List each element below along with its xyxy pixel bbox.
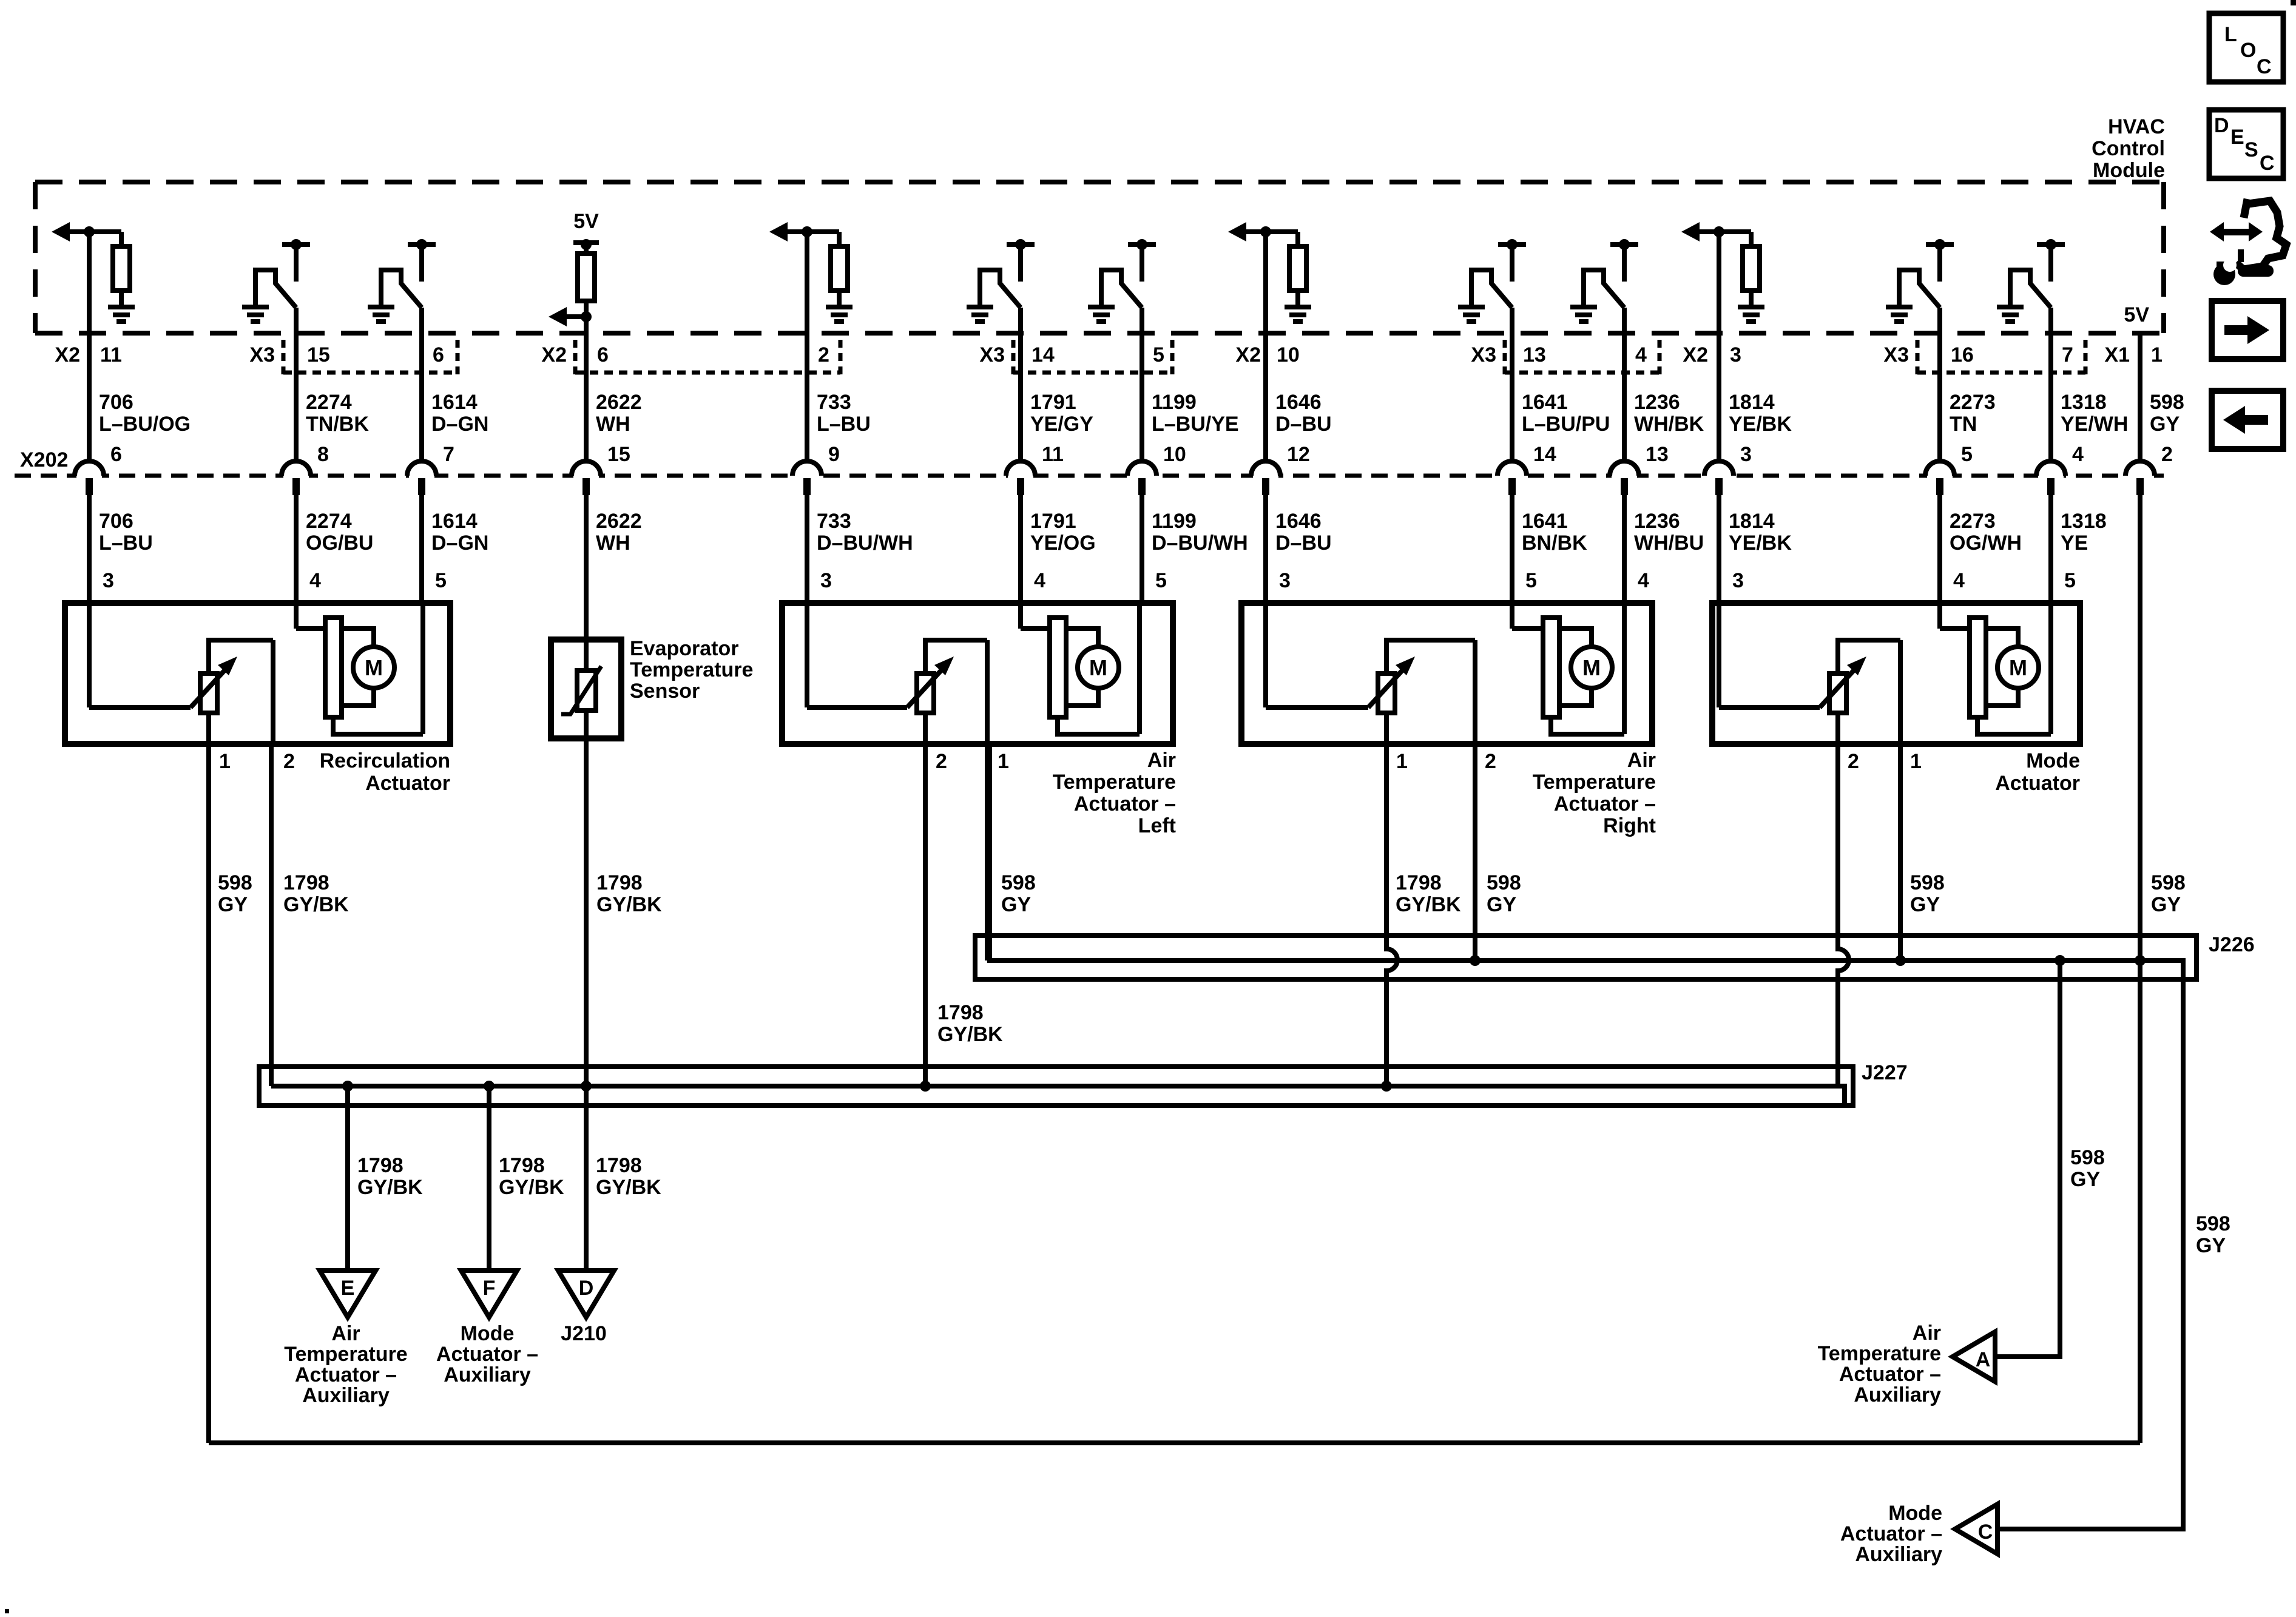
svg-text:1: 1 <box>1910 750 1922 773</box>
wire pin 4 to motor return <box>1622 603 1627 734</box>
wire 1798 GY/BK from Evaporator Temperature Sensor <box>584 738 589 1271</box>
motor M (Mode Actuator) <box>1970 618 2051 734</box>
potentiometer (Recirculation Actuator) <box>89 640 273 713</box>
svg-text:L: L <box>2224 23 2237 46</box>
separator <box>2084 340 2088 375</box>
Recirculation Actuator box <box>65 603 450 744</box>
ground <box>368 305 394 324</box>
junction dot <box>1895 955 1906 966</box>
wire to actuator <box>2048 494 2053 606</box>
svg-text:X2: X2 <box>1235 343 1261 366</box>
junction dot <box>920 1081 931 1092</box>
svg-text:5: 5 <box>1155 569 1167 592</box>
svg-text:1: 1 <box>998 750 1009 773</box>
wire 598 GY from Mode Actuator pin 1 <box>1898 744 1903 960</box>
svg-text:13: 13 <box>1646 443 1669 466</box>
wire 598 GY from Recirculation Actuator pin 1 <box>206 744 211 1443</box>
svg-text:D: D <box>579 1277 594 1300</box>
svg-text:11: 11 <box>100 343 122 366</box>
svg-text:598GY: 598GY <box>218 871 252 916</box>
wrench and arrow icon <box>2210 199 2286 285</box>
junction dot <box>2055 955 2065 966</box>
svg-text:13: 13 <box>1523 343 1546 366</box>
resistor R (pull-up) and arrow, module pin X2-11 <box>52 222 130 305</box>
wire to actuator <box>1263 494 1268 606</box>
connector C (Mode Actuator Auxiliary) <box>1955 1504 1997 1554</box>
separator <box>839 340 843 375</box>
ground <box>1458 305 1485 324</box>
svg-text:4: 4 <box>2072 443 2084 466</box>
svg-text:598GY: 598GY <box>2151 871 2186 916</box>
svg-text:4: 4 <box>1638 569 1649 592</box>
pot lead to pin 2 <box>271 640 275 744</box>
ground <box>1088 305 1115 324</box>
connector X202 terminal 3 <box>1704 461 1734 495</box>
pot lead to pin 2 <box>923 713 928 744</box>
HVAC Control Module dashed box <box>35 182 2164 333</box>
wire inside actuator <box>805 603 809 707</box>
svg-text:6: 6 <box>110 443 122 466</box>
5V supply with resistor, module pin X2-6 <box>549 210 599 326</box>
ground <box>1886 305 1913 324</box>
connector E (Air Temperature Actuator Auxiliary) <box>320 1271 376 1317</box>
svg-text:J227: J227 <box>1862 1061 1908 1084</box>
svg-text:2: 2 <box>2161 443 2173 466</box>
X202 in-line connector dashed line <box>15 474 2164 478</box>
svg-text:5: 5 <box>1525 569 1537 592</box>
svg-text:5: 5 <box>1153 343 1164 366</box>
Air Temperature Actuator Left box <box>782 603 1173 744</box>
Evaporator Temperature Sensor box <box>551 640 621 738</box>
svg-text:3: 3 <box>1732 569 1744 592</box>
svg-text:M: M <box>1089 655 1107 680</box>
left arrow icon <box>2212 391 2283 449</box>
wire 2622 WH to evaporator temperature sensor <box>584 494 589 640</box>
ground <box>1997 305 2024 324</box>
wire to motor <box>294 603 299 629</box>
connector X202 terminal 13 <box>1610 461 1639 495</box>
svg-text:X3: X3 <box>1883 343 1909 366</box>
ground <box>108 305 135 324</box>
ground <box>967 305 993 324</box>
svg-text:10: 10 <box>1277 343 1300 366</box>
wire <box>87 232 92 462</box>
potentiometer (Mode Actuator) <box>1719 640 1900 713</box>
connector sub-box bottom <box>283 371 458 375</box>
svg-text:F: F <box>483 1277 496 1300</box>
splice harness J226 outline <box>975 936 2196 979</box>
svg-text:6: 6 <box>597 343 609 366</box>
svg-text:5: 5 <box>435 569 447 592</box>
svg-text:3: 3 <box>103 569 114 592</box>
svg-text:J226: J226 <box>2209 933 2255 956</box>
wire to actuator <box>87 494 92 606</box>
svg-text:598GY: 598GY <box>1487 871 1521 916</box>
svg-text:E: E <box>2230 126 2244 149</box>
wire pin 5 to motor return <box>420 603 425 734</box>
wire 1798 GY/BK from Mode Actuator pin 2 (hops J226) <box>1838 744 1849 1086</box>
wire inside actuator <box>1263 603 1268 707</box>
svg-text:2: 2 <box>1485 750 1496 773</box>
connector F (Mode Actuator Auxiliary) <box>461 1271 517 1317</box>
wire inside actuator <box>1717 603 1721 707</box>
svg-text:5: 5 <box>2064 569 2076 592</box>
splice J226 wire 598 GY <box>990 744 2183 1529</box>
svg-text:598GY: 598GY <box>1001 871 1036 916</box>
wire to actuator <box>1622 494 1627 606</box>
connector X202 terminal 7 <box>407 461 436 495</box>
Air Temperature Actuator Right box <box>1241 603 1652 744</box>
wire 598 GY from Air Temperature Actuator Left pin 1 <box>985 744 990 960</box>
svg-text:X3: X3 <box>1471 343 1496 366</box>
wire <box>2048 308 2053 462</box>
svg-text:7: 7 <box>443 443 454 466</box>
separator <box>456 340 460 375</box>
connector D (J210) <box>558 1271 614 1317</box>
wire inside recirculation actuator <box>87 603 92 707</box>
svg-text:14: 14 <box>1533 443 1556 466</box>
svg-text:4: 4 <box>1635 343 1647 366</box>
svg-text:X202: X202 <box>20 448 68 471</box>
motor M (Air Temperature Actuator Left) <box>1050 618 1140 734</box>
svg-text:1: 1 <box>219 750 231 773</box>
svg-text:D: D <box>2214 114 2229 137</box>
svg-text:3: 3 <box>1730 343 1741 366</box>
svg-text:8: 8 <box>317 443 329 466</box>
wire 598 GY from X202 terminal 2 down through J226 <box>2138 495 2142 1443</box>
svg-text:5V: 5V <box>573 210 599 233</box>
wire to actuator <box>1140 494 1144 606</box>
wire <box>1510 308 1514 462</box>
svg-text:10: 10 <box>1163 443 1186 466</box>
driver switch to ground, module pin X3-14 <box>980 239 1035 308</box>
svg-text:X2: X2 <box>1683 343 1708 366</box>
connector sub-box bottom <box>575 371 840 375</box>
wire to motor bar <box>1940 626 1970 631</box>
svg-text:M: M <box>1582 655 1601 680</box>
connector X202 terminal 9 <box>792 461 822 495</box>
connector X202 terminal 15 <box>572 461 601 495</box>
LOC icon <box>2209 13 2283 82</box>
separator <box>1658 340 1662 375</box>
svg-text:C: C <box>2260 152 2275 175</box>
svg-text:E: E <box>341 1277 355 1300</box>
svg-text:6: 6 <box>433 343 444 366</box>
pot lead to pin 1 <box>206 713 211 744</box>
ground <box>1285 305 1311 324</box>
svg-text:598GY: 598GY <box>2070 1146 2105 1191</box>
Mode Actuator box <box>1712 603 2080 744</box>
junction dot <box>1470 955 1481 966</box>
wire <box>1717 232 1721 462</box>
svg-text:2: 2 <box>936 750 947 773</box>
wire 1798 GY/BK from Air Temperature Actuator Left pin 2 <box>923 744 928 1086</box>
wire 598 GY from pin X1-1 <box>2138 333 2142 462</box>
connector X202 terminal 8 <box>282 461 311 495</box>
svg-text:J210: J210 <box>561 1322 607 1345</box>
svg-text:X3: X3 <box>249 343 275 366</box>
connector X202 terminal 12 <box>1251 461 1280 495</box>
svg-text:C: C <box>2257 55 2272 78</box>
wire to actuator <box>294 494 299 606</box>
wire <box>1263 232 1268 462</box>
pot lead to pin 2 <box>1473 640 1477 744</box>
connector sub-box bottom <box>1917 371 2085 375</box>
wire <box>294 308 299 462</box>
wire to motor bar <box>296 626 325 631</box>
wire <box>584 317 589 462</box>
driver switch to ground, module pin X3-7 <box>2010 239 2065 308</box>
svg-text:X2: X2 <box>541 343 567 366</box>
wire to actuator <box>1018 494 1023 606</box>
svg-text:X3: X3 <box>979 343 1005 366</box>
ground <box>1738 305 1764 324</box>
svg-text:1: 1 <box>2151 343 2163 366</box>
svg-text:A: A <box>1976 1348 1991 1371</box>
svg-text:15: 15 <box>307 343 330 366</box>
wire to motor bar <box>1021 626 1050 631</box>
DESC icon <box>2209 110 2283 178</box>
svg-text:9: 9 <box>828 443 840 466</box>
svg-text:598GY: 598GY <box>1910 871 1945 916</box>
wire 598 GY bottom run <box>209 1440 2140 1445</box>
pot lead to pin 1 <box>985 640 990 744</box>
wire <box>1937 308 1942 462</box>
junction dot <box>484 1081 495 1092</box>
wire to motor bar <box>1512 626 1543 631</box>
wire to actuator <box>1717 494 1721 606</box>
thermistor (Evaporator Temperature Sensor) <box>561 640 601 738</box>
driver switch to ground, module pin X3-5 <box>1101 239 1156 308</box>
potentiometer (Air Temperature Actuator Right) <box>1266 640 1475 713</box>
svg-text:4: 4 <box>309 569 321 592</box>
driver switch to ground, module pin X3-6 <box>381 239 436 308</box>
svg-text:7: 7 <box>2062 343 2073 366</box>
svg-text:5V: 5V <box>2124 303 2149 326</box>
potentiometer (Air Temperature Actuator Left) <box>807 640 987 713</box>
pot lead to pin 1 <box>1384 713 1389 744</box>
wire <box>1018 308 1023 462</box>
connector X202 terminal 14 <box>1497 461 1527 495</box>
resistor R (pull-up) and arrow, module pin X2-2 <box>769 222 848 305</box>
resistor R (pull-up) and arrow, module pin X2-3 <box>1681 222 1760 305</box>
wire 1798 GY/BK to connector F <box>487 1086 491 1271</box>
wire <box>1140 308 1144 462</box>
driver switch to ground, module pin X3-16 <box>1899 239 1954 308</box>
svg-text:15: 15 <box>607 443 630 466</box>
wire to actuator <box>419 494 424 606</box>
wire 1798 GY/BK from Air Temperature Actuator Right pin 1 (hops J226) <box>1386 744 1397 1086</box>
connector X202 terminal 11 <box>1006 461 1035 495</box>
svg-text:4: 4 <box>1953 569 1965 592</box>
connector X202 terminal 6 <box>75 461 104 495</box>
driver switch to ground, module pin X3-13 <box>1471 239 1526 308</box>
motor M (Recirculation Actuator) <box>325 618 423 734</box>
junction dot <box>2135 955 2146 966</box>
separator <box>573 340 578 375</box>
splice J227 wire 1798 GY/BK <box>271 1084 1838 1089</box>
svg-text:1: 1 <box>1396 750 1408 773</box>
driver switch to ground, module pin X3-4 <box>1584 239 1638 308</box>
svg-text:3: 3 <box>820 569 832 592</box>
svg-text:S: S <box>2244 138 2258 161</box>
wire <box>805 232 809 462</box>
svg-text:598GY: 598GY <box>2196 1212 2230 1257</box>
resistor R (pull-up) and arrow, module pin X2-10 <box>1228 222 1306 305</box>
separator <box>1503 340 1507 375</box>
svg-text:2: 2 <box>818 343 829 366</box>
connector sub-box bottom <box>1505 371 1660 375</box>
separator <box>1011 340 1016 375</box>
wire 1798 GY/BK from Recirculation Actuator pin 2 <box>269 744 274 1086</box>
svg-text:2: 2 <box>283 750 295 773</box>
separator <box>1170 340 1175 375</box>
wire to actuator <box>1510 494 1514 606</box>
separator <box>1916 340 1920 375</box>
wire to actuator <box>1937 494 1942 606</box>
wire 598 GY from Air Temperature Actuator Right pin 2 <box>1473 744 1477 960</box>
wire pin 5 to motor return <box>1137 603 1142 734</box>
connector X202 terminal 5 <box>1925 461 1954 495</box>
ground <box>242 305 269 324</box>
page mark <box>5 1609 9 1613</box>
ground <box>826 305 853 324</box>
svg-text:C: C <box>1978 1521 1993 1544</box>
junction dot <box>1381 1081 1392 1092</box>
svg-text:M: M <box>365 655 383 680</box>
svg-text:2: 2 <box>1848 750 1859 773</box>
svg-text:4: 4 <box>1034 569 1045 592</box>
svg-text:3: 3 <box>1279 569 1291 592</box>
wire pin 5 to motor return <box>2048 603 2053 734</box>
connector A (Air Temperature Actuator Auxiliary) <box>1953 1332 1995 1382</box>
wire to motor <box>1018 603 1023 629</box>
wire to actuator <box>805 494 809 606</box>
svg-text:12: 12 <box>1287 443 1310 466</box>
wire <box>1622 308 1627 462</box>
svg-text:16: 16 <box>1951 343 1974 366</box>
svg-text:X2: X2 <box>55 343 80 366</box>
page mark top right <box>2291 0 2296 5</box>
svg-text:O: O <box>2240 39 2256 62</box>
separator <box>282 340 286 375</box>
svg-text:598GY: 598GY <box>2150 391 2184 436</box>
wire 598 GY to connector A <box>1995 960 2060 1357</box>
driver switch to ground, module pin X3-15 <box>255 239 310 308</box>
ground <box>1570 305 1597 324</box>
wire 1798 GY/BK to connector E <box>345 1086 350 1271</box>
right arrow icon <box>2212 301 2283 359</box>
wire <box>419 308 424 462</box>
junction dot <box>342 1081 353 1092</box>
svg-text:5: 5 <box>1961 443 1973 466</box>
svg-text:3: 3 <box>1740 443 1752 466</box>
svg-text:M: M <box>2009 655 2027 680</box>
J227 middle wire end elbow <box>1838 1086 1845 1106</box>
splice harness J227 outline <box>259 1067 1853 1106</box>
connector X202 terminal 10 <box>1127 461 1156 495</box>
pot lead to pin 2 <box>1835 713 1840 744</box>
connector X202 terminal 2 <box>2125 461 2155 495</box>
motor M (Air Temperature Actuator Right) <box>1543 618 1624 734</box>
connector sub-box bottom <box>1013 371 1172 375</box>
svg-text:14: 14 <box>1032 343 1055 366</box>
wire to motor <box>1937 603 1942 629</box>
junction dot <box>581 1081 592 1092</box>
pot lead to pin 1 <box>1898 640 1903 744</box>
connector X202 terminal 4 <box>2036 461 2065 495</box>
wire to motor <box>1510 603 1514 629</box>
svg-text:11: 11 <box>1042 443 1064 466</box>
svg-text:X1: X1 <box>2104 343 2130 366</box>
